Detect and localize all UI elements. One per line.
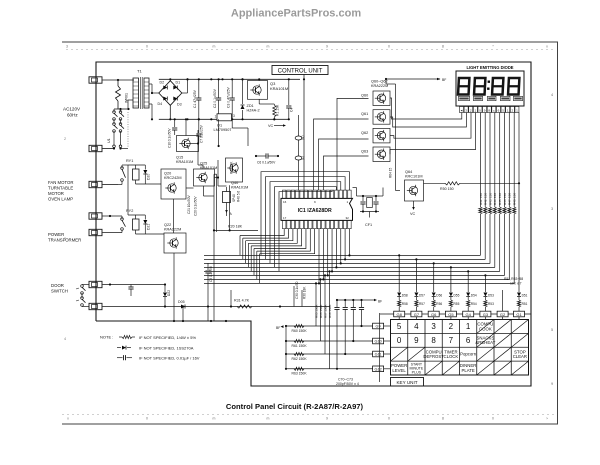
interlock switch S1	[113, 111, 116, 114]
wire DC bottom rail	[159, 118, 289, 120]
transistor Q40 box	[226, 158, 243, 182]
svg-text:BF: BF	[378, 300, 382, 304]
svg-text:150: 150	[479, 193, 483, 198]
svg-text:150: 150	[503, 193, 507, 198]
svg-text:1: 1	[466, 322, 471, 331]
capacitor C7	[198, 130, 200, 133]
wire Q22 to ground rail	[173, 253, 175, 321]
svg-text:D20: D20	[147, 174, 151, 180]
wire bus drops to R rows	[315, 283, 317, 326]
wire cap top rail	[337, 299, 362, 301]
relay RY2 coil	[133, 219, 140, 230]
svg-text:1: 1	[215, 115, 217, 119]
door switch contacts	[81, 285, 84, 288]
bridge diode D1	[173, 86, 177, 90]
svg-text:C30 0.1u/50: C30 0.1u/50	[295, 281, 299, 299]
wire lamp line	[103, 284, 132, 286]
svg-text:IF NOT SPECIFIED, 1SS270A: IF NOT SPECIFIED, 1SS270A	[139, 346, 194, 351]
svg-text:C10 0.1u/50V: C10 0.1u/50V	[168, 128, 172, 148]
svg-text:RY2: RY2	[126, 209, 133, 213]
wire rail drop 1	[198, 119, 200, 130]
wire Q6x emitter rail	[395, 84, 397, 184]
relay RY2 contact	[121, 218, 124, 221]
svg-text:DEFROST: DEFROST	[423, 354, 444, 359]
svg-text:CF1: CF1	[365, 223, 372, 227]
diode D22	[131, 284, 165, 286]
svg-text:IF NOT SPECIFIED, 1/4W ± 5%: IF NOT SPECIFIED, 1/4W ± 5%	[139, 335, 196, 340]
svg-text:0: 0	[388, 417, 390, 421]
svg-text:PLUS: PLUS	[412, 371, 422, 375]
svg-text:R65 150K: R65 150K	[315, 305, 319, 318]
wire bus IC to keypad columns	[204, 254, 514, 290]
svg-text:3: 3	[551, 207, 553, 211]
wire T1 primary bottom	[128, 99, 133, 101]
svg-text:D57: D57	[419, 294, 425, 298]
svg-text:9: 9	[326, 417, 328, 421]
svg-text:9: 9	[326, 45, 328, 49]
svg-text:D55: D55	[454, 294, 460, 298]
wire left column verticals	[213, 196, 215, 321]
svg-text:G9: G9	[376, 325, 381, 329]
svg-text:SP40: SP40	[232, 194, 236, 202]
svg-text:LM70950T: LM70950T	[214, 128, 233, 132]
svg-text:D22: D22	[167, 290, 171, 296]
svg-text:POWER: POWER	[48, 232, 64, 237]
svg-text:BF: BF	[276, 326, 280, 330]
svg-text:G6: G6	[431, 312, 437, 317]
svg-text:G1: G1	[516, 312, 522, 317]
wire DC top rail	[159, 78, 300, 80]
wire BF stub	[386, 78, 440, 80]
wire Q63 collector	[390, 113, 476, 155]
wire Q64 output	[424, 182, 446, 184]
svg-text:G7: G7	[414, 312, 420, 317]
svg-text:Q22: Q22	[164, 223, 171, 227]
wire nest IC top	[261, 172, 349, 272]
key unit label box	[391, 378, 424, 387]
bridge diode D3	[173, 97, 177, 101]
wire Q3 leads	[258, 79, 260, 80]
capacitor C4	[288, 79, 290, 105]
svg-text:R64 15: R64 15	[389, 167, 393, 178]
wire Q61 base	[314, 119, 369, 190]
wire bridge left from T1	[152, 92, 159, 94]
svg-text:AC120V: AC120V	[63, 107, 81, 112]
svg-text:D54: D54	[471, 294, 477, 298]
transformer T1 primary winding	[133, 78, 139, 108]
frame dotted guide bottom	[62, 414, 555, 416]
capacitor C1	[198, 79, 200, 98]
resistor R31	[237, 305, 252, 308]
svg-text:Q63: Q63	[361, 150, 368, 154]
bridge rectifier outline	[159, 81, 182, 106]
wire Q20 to Q22	[173, 199, 175, 233]
svg-text:150: 150	[498, 193, 502, 198]
svg-text:3: 3	[431, 322, 436, 331]
svg-text:R53: R53	[488, 302, 494, 306]
svg-text:BF: BF	[442, 78, 446, 82]
svg-text:m: m	[213, 45, 216, 49]
svg-text:COOK: COOK	[479, 326, 492, 331]
svg-text:2: 2	[449, 322, 454, 331]
switch link dashed	[127, 112, 129, 148]
svg-text:KRA101M: KRA101M	[270, 86, 288, 91]
keypad grid	[391, 320, 529, 376]
relay RY1 contact	[121, 167, 124, 170]
wire Q62 collector	[390, 113, 471, 139]
svg-text:C2 0.1u/50V: C2 0.1u/50V	[213, 88, 217, 108]
svg-text:IF NOT SPECIFIED, 0.01µF / 16: IF NOT SPECIFIED, 0.01µF / 16V	[139, 356, 200, 361]
wire Q60 collector	[390, 98, 462, 119]
svg-text:4: 4	[551, 93, 553, 97]
svg-text:KEY UNIT: KEY UNIT	[396, 380, 417, 385]
transformer T1 secondary winding	[144, 78, 149, 108]
wire G column to keypad	[384, 325, 391, 327]
wire B2 vertical drops	[182, 307, 184, 322]
svg-text:150: 150	[508, 193, 512, 198]
border frame bottom line	[62, 423, 558, 425]
svg-text:C7 0.1u/25V: C7 0.1u/25V	[200, 124, 204, 143]
capacitor C3	[231, 79, 233, 98]
svg-text:CLOCK: CLOCK	[443, 354, 458, 359]
capacitor C6	[265, 153, 267, 158]
svg-text:DOOR: DOOR	[51, 283, 64, 288]
svg-text:RY1: RY1	[126, 159, 133, 163]
svg-text:KRC242M: KRC242M	[164, 176, 182, 180]
svg-text:10K x 7: 10K x 7	[510, 282, 522, 286]
wire Q61 collector	[390, 113, 466, 128]
capacitor C2	[218, 79, 220, 98]
capacitor C21	[128, 286, 133, 288]
svg-text:T1: T1	[137, 69, 142, 74]
svg-text:D21: D21	[147, 224, 151, 230]
svg-text:150: 150	[484, 193, 488, 198]
svg-text:C3 0.47u/25V: C3 0.47u/25V	[226, 87, 230, 108]
svg-text:8: 8	[431, 336, 436, 345]
bridge diode D2	[163, 86, 167, 90]
control unit label box	[272, 66, 328, 75]
LED digits 88:88	[458, 78, 519, 95]
svg-text:3: 3	[233, 114, 235, 118]
svg-text:5: 5	[551, 328, 553, 332]
svg-text:60Hz: 60Hz	[67, 113, 78, 118]
frame tick labels top	[66, 45, 548, 49]
regulator Q1 box	[217, 114, 232, 121]
wire Q63 base	[324, 156, 369, 190]
svg-text:NOTE :: NOTE :	[100, 335, 113, 340]
transistor Q3 box	[248, 81, 268, 100]
svg-text:Q1: Q1	[217, 124, 222, 128]
diode D05	[181, 305, 185, 309]
wire connector line	[298, 115, 300, 136]
terminal D1	[89, 281, 102, 287]
svg-text:Q61: Q61	[361, 112, 368, 116]
transistor Q61 box	[373, 110, 390, 125]
diode D20	[144, 167, 146, 170]
svg-text:ZD1: ZD1	[247, 104, 254, 108]
buzzer arrow A	[225, 210, 228, 213]
svg-text:>: >	[546, 417, 548, 421]
border frame top line	[62, 41, 558, 43]
connector row G8-G1	[394, 311, 525, 319]
svg-text:32: 32	[346, 216, 350, 220]
wire terminal A2 to switches	[103, 148, 115, 150]
wire VB vertical from top border	[303, 75, 305, 191]
LED annunciator boxes	[459, 96, 523, 100]
svg-text:MOTOR: MOTOR	[48, 191, 64, 196]
svg-text:TURNTABLE: TURNTABLE	[48, 186, 73, 191]
wire rail to Q15	[185, 119, 187, 135]
wire nest IC bottom	[240, 229, 351, 285]
diode-resistor columns D51-D58 R51-R58	[397, 290, 527, 311]
svg-text:8: 8	[442, 45, 444, 49]
svg-text:R50 150: R50 150	[440, 187, 454, 191]
interlock switch S2	[119, 111, 122, 114]
svg-text:R62 150K: R62 150K	[292, 357, 308, 361]
svg-text:R51: R51	[522, 302, 528, 306]
svg-text:G4: G4	[466, 312, 472, 317]
LED display box	[456, 71, 524, 106]
keypad diagonal blanks	[391, 320, 529, 376]
svg-text:9: 9	[551, 382, 553, 386]
terminal A1	[89, 77, 102, 83]
svg-text:R45: R45	[498, 199, 502, 205]
wire COM terminal	[103, 215, 123, 217]
transistor Q62 box	[373, 128, 390, 143]
svg-text:G11: G11	[375, 353, 382, 357]
svg-text:R68 150K: R68 150K	[328, 305, 332, 318]
IC1 bottom pin row	[283, 220, 352, 228]
connector G12	[373, 366, 384, 372]
wire door line D05	[103, 306, 331, 308]
svg-text:C4: C4	[290, 108, 294, 112]
svg-text:R60 150K: R60 150K	[292, 329, 308, 333]
bridge diode D4	[163, 97, 167, 101]
transistor Q64 box	[405, 180, 424, 201]
svg-text:C21 10u/50V: C21 10u/50V	[187, 195, 191, 214]
resistor R1 15K	[273, 104, 275, 105]
svg-text:16: 16	[283, 200, 287, 204]
wire Q64 emitter VC	[413, 201, 415, 207]
svg-text:150: 150	[493, 193, 497, 198]
relay RY1 coil	[133, 169, 140, 180]
svg-text:0: 0	[146, 45, 148, 49]
svg-text:R47: R47	[508, 199, 512, 205]
transistor Q22 box	[164, 233, 186, 253]
svg-text:G5: G5	[448, 312, 454, 317]
capacitors C70-C73	[334, 300, 364, 370]
svg-text:R20 18K: R20 18K	[228, 225, 243, 229]
svg-text:U1: U1	[107, 138, 111, 143]
svg-text:m: m	[267, 45, 270, 49]
wire BF arrow keypad	[281, 325, 284, 328]
svg-text:200pF/50V x 4: 200pF/50V x 4	[336, 382, 359, 386]
transistor Q63 box	[373, 147, 390, 162]
buzzer SP40	[223, 192, 231, 203]
svg-text:HZ4A-2: HZ4A-2	[247, 109, 260, 113]
svg-text:D1: D1	[176, 81, 181, 85]
connector G11	[373, 351, 384, 357]
wire Q64 base	[396, 190, 401, 192]
wire LED lines to bus	[479, 192, 517, 283]
wire keypad left column	[379, 313, 381, 382]
svg-text:R63 150K: R63 150K	[292, 372, 308, 376]
svg-text:R46: R46	[503, 199, 507, 205]
svg-text:150: 150	[513, 193, 517, 198]
transistor Q25 box	[194, 169, 215, 186]
svg-text:Q60~Q62: Q60~Q62	[371, 80, 388, 84]
zener ZD1	[242, 79, 244, 104]
svg-text:G3: G3	[483, 312, 489, 317]
svg-text:R57: R57	[419, 302, 425, 306]
wire R20 row	[214, 229, 258, 231]
note capacitor symbol	[117, 357, 123, 359]
keypad digits	[397, 322, 471, 345]
terminal COM	[89, 213, 102, 219]
svg-text:7: 7	[449, 336, 454, 345]
svg-text:Popcorn: Popcorn	[460, 352, 477, 357]
wire bridge right to rail	[182, 92, 188, 94]
resonator CF1	[362, 196, 364, 201]
svg-text:D58: D58	[402, 294, 408, 298]
wire AC line from terminal A	[103, 79, 135, 81]
svg-text:3: 3	[66, 45, 68, 49]
wire row G12	[286, 368, 373, 370]
svg-text:R66 150K: R66 150K	[319, 305, 323, 318]
svg-text:D2: D2	[160, 81, 165, 85]
svg-text:9: 9	[414, 336, 419, 345]
svg-text:R55: R55	[454, 302, 460, 306]
svg-text:FAN MOTOR: FAN MOTOR	[48, 180, 73, 185]
resistor R60 150K	[294, 324, 304, 327]
svg-text:0: 0	[397, 336, 402, 345]
svg-text:4: 4	[414, 322, 419, 331]
terminal NO	[89, 229, 102, 235]
note diode symbol	[117, 347, 121, 349]
svg-text:CLEAR: CLEAR	[513, 354, 527, 359]
svg-text:R48: R48	[513, 199, 517, 205]
wire row G10	[286, 340, 373, 342]
svg-text:R31 4.7K: R31 4.7K	[234, 299, 250, 303]
border frame right line	[557, 42, 559, 424]
wire bottom gnd rail	[101, 320, 251, 322]
IC1 top pin row	[283, 190, 352, 198]
svg-text:R58: R58	[402, 302, 408, 306]
svg-text:D4: D4	[158, 102, 163, 106]
IC1 body	[281, 198, 353, 220]
svg-text:4: 4	[64, 337, 66, 341]
svg-text:TRANSFORMER: TRANSFORMER	[48, 238, 81, 243]
svg-text:C70~C73: C70~C73	[338, 378, 353, 382]
svg-text:◄: ◄	[460, 108, 463, 112]
svg-text:D3: D3	[177, 103, 182, 107]
wire G row link	[380, 313, 531, 315]
svg-text:0: 0	[146, 417, 148, 421]
transistor Q20 box	[161, 169, 186, 199]
svg-text:D53: D53	[488, 294, 494, 298]
note resistor symbol	[119, 336, 122, 338]
svg-text:0: 0	[492, 417, 494, 421]
svg-text:KRA101M: KRA101M	[176, 160, 193, 164]
wire row G9	[286, 325, 373, 327]
transformer T1 core	[139, 77, 141, 109]
svg-text:R1 15K: R1 15K	[276, 104, 280, 116]
svg-text:R54: R54	[471, 302, 477, 306]
svg-text:17: 17	[283, 216, 287, 220]
wire Q62 base	[319, 139, 369, 190]
wire Q60 base	[337, 98, 369, 190]
diode D21	[144, 217, 146, 220]
terminal B1	[89, 181, 102, 187]
capacitor C8	[207, 263, 209, 270]
wire varistor to switch rail	[117, 106, 119, 109]
svg-text:m: m	[267, 417, 270, 421]
svg-text:R67 150K: R67 150K	[324, 305, 328, 318]
svg-text:G2: G2	[500, 312, 506, 317]
svg-text:CONTROL UNIT: CONTROL UNIT	[278, 69, 323, 75]
svg-text:8: 8	[442, 417, 444, 421]
varistor WR01	[116, 86, 121, 101]
svg-text:6: 6	[466, 336, 471, 345]
connector G10	[373, 338, 384, 344]
svg-text:R40 5.6: R40 5.6	[237, 191, 241, 202]
svg-text:OVEN LAMP: OVEN LAMP	[48, 197, 73, 202]
svg-text:2: 2	[64, 137, 66, 141]
terminal D2	[89, 303, 102, 309]
resistor R63 150K	[294, 367, 304, 370]
frame tick labels bottom	[67, 417, 548, 421]
resistor row R41-R48	[479, 192, 517, 214]
svg-text:C1 47u/25V: C1 47u/25V	[193, 89, 197, 108]
svg-text:R51,R53~58: R51,R53~58	[504, 277, 523, 281]
wire row common left	[285, 326, 287, 369]
svg-text:&REHEAT: &REHEAT	[475, 340, 495, 345]
svg-text:5: 5	[397, 322, 402, 331]
svg-text:D05: D05	[178, 300, 185, 304]
svg-text:G10: G10	[375, 340, 382, 344]
connector pin L	[295, 156, 302, 160]
svg-text:x: x	[67, 417, 69, 421]
svg-text:R61 150K: R61 150K	[292, 344, 308, 348]
svg-text:Q60: Q60	[361, 94, 368, 98]
terminal A2	[89, 145, 102, 151]
svg-text:R43: R43	[488, 199, 492, 205]
wire rail drop 2	[218, 119, 220, 146]
resistor R61 150K	[294, 339, 304, 342]
svg-text:x: x	[546, 45, 548, 49]
svg-text:D56: D56	[436, 294, 442, 298]
svg-text:R30 18K: R30 18K	[303, 286, 307, 299]
svg-text:KRA222M: KRA222M	[164, 228, 181, 232]
svg-text:Q62: Q62	[361, 131, 368, 135]
capacitor C10	[174, 119, 176, 127]
svg-text:G12: G12	[375, 368, 382, 372]
transistor Q15 box	[177, 136, 199, 152]
svg-text:C6 0.1u/50V: C6 0.1u/50V	[257, 161, 276, 165]
svg-text:KRA222M: KRA222M	[371, 84, 388, 88]
wire LED segment lines	[480, 113, 514, 193]
svg-text:R44: R44	[493, 199, 497, 205]
svg-text:KRC101M: KRC101M	[405, 175, 423, 179]
wire bridge bottom to rail	[169, 105, 171, 119]
wire rail drop 3	[231, 119, 233, 128]
svg-text:Q64: Q64	[405, 170, 412, 174]
wire CF1 to IC	[356, 188, 358, 197]
wire Q25 emitter down	[203, 186, 205, 196]
resistor R62 150K	[294, 352, 304, 355]
svg-text:R41: R41	[479, 199, 483, 205]
keypad function labels	[391, 322, 527, 375]
